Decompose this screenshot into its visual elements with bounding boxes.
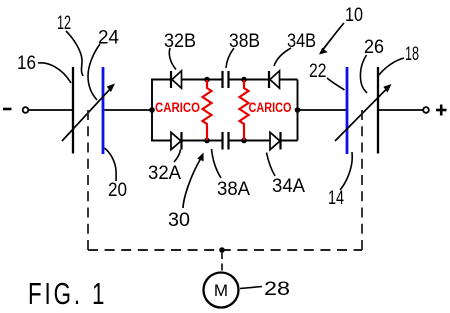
node top of left load resistor [204, 77, 210, 83]
leader 18 [379, 58, 404, 75]
leader 32A [174, 150, 181, 163]
svg-text:26: 26 [364, 37, 384, 58]
svg-text:FIG. 1: FIG. 1 [28, 276, 107, 310]
svg-text:34B: 34B [287, 31, 316, 52]
svg-text:18: 18 [405, 44, 419, 65]
svg-text:14: 14 [328, 188, 344, 209]
capacitor C14 movable plate 22 (blue) [346, 67, 349, 154]
leader 14 [340, 152, 352, 190]
wire bottom rail segment 4 [281, 140, 298, 142]
svg-text:12: 12 [57, 13, 71, 34]
leader 34A [267, 153, 276, 177]
svg-text:30: 30 [168, 210, 190, 231]
wire top rail segment 4 [280, 79, 298, 81]
capacitor C12 fixed plate 16 [72, 67, 74, 154]
svg-text:20: 20 [108, 180, 127, 201]
wire top rail segment 2 [182, 79, 223, 81]
leader arrow 30 [183, 153, 204, 209]
diode 34B [269, 71, 280, 88]
svg-text:10: 10 [345, 5, 363, 26]
wire network left edge [151, 80, 153, 141]
capacitor C12 movable plate 20 (blue) [102, 67, 105, 154]
mechanical linkage dashed right [361, 110, 363, 250]
terminal circle negative [23, 107, 29, 113]
svg-text:16: 16 [17, 53, 36, 74]
wire bottom rail segment 2 [182, 140, 222, 142]
node left of network [149, 107, 155, 113]
capacitor C14 fixed plate 18 [377, 67, 379, 154]
mechanical linkage dashed bottom [88, 249, 362, 251]
svg-text:32A: 32A [148, 163, 181, 184]
leader 38B [226, 48, 234, 68]
node bottom of left load resistor [204, 138, 210, 144]
terminal circle positive [423, 107, 429, 113]
leader 12 [66, 31, 83, 76]
leader 28 [240, 287, 262, 289]
wire network to right capacitor [299, 109, 347, 111]
wire from plate 20 to network [105, 109, 152, 111]
wire bottom rail segment 3 [229, 140, 270, 142]
leader 22 [327, 78, 345, 90]
resistor load left (CARICO) [203, 80, 212, 140]
leader 26 [360, 55, 367, 93]
svg-text:38A: 38A [217, 179, 250, 200]
svg-text:28: 28 [264, 279, 290, 300]
node on linkage [219, 247, 225, 253]
capacitor 38A [223, 132, 229, 150]
node right of network [295, 107, 301, 113]
negative terminal sign [3, 108, 12, 111]
svg-text:22: 22 [309, 61, 327, 82]
leader arrow 10 [319, 23, 344, 55]
svg-text:M: M [214, 281, 228, 300]
leader 20 [105, 148, 117, 181]
node bottom of right load resistor [241, 138, 247, 144]
diode 32A [171, 132, 182, 150]
capacitor 38B [223, 71, 229, 88]
svg-text:CARICO: CARICO [249, 100, 292, 115]
svg-text:34A: 34A [272, 176, 305, 197]
motor M 28 [204, 273, 239, 308]
capacitor C14 variable arrow [335, 84, 392, 141]
diode 34A [270, 132, 281, 150]
wire bottom rail segment 1 [151, 140, 172, 142]
linkage stub to motor [221, 252, 223, 271]
wire network right edge [297, 80, 299, 141]
capacitor C12 variable arrow [62, 84, 115, 142]
svg-text:38B: 38B [229, 31, 260, 52]
mechanical linkage dashed left [87, 110, 89, 250]
leader 16 [38, 63, 71, 83]
svg-text:CARICO: CARICO [155, 100, 200, 115]
leader 24 [88, 44, 100, 100]
diode 32B [171, 71, 182, 88]
node top of right load resistor [241, 77, 247, 83]
svg-text:32B: 32B [164, 31, 196, 52]
resistor load right (CARICO) [240, 80, 249, 140]
wire output right [379, 109, 423, 111]
leader 38A [212, 149, 222, 178]
svg-text:24: 24 [98, 28, 119, 49]
positive terminal sign [436, 105, 447, 116]
wire top rail segment 3 [229, 79, 269, 81]
wire input left [29, 109, 72, 111]
leader 32B [169, 48, 176, 70]
leader 34B [274, 48, 291, 66]
wire top rail segment 1 [151, 79, 171, 81]
